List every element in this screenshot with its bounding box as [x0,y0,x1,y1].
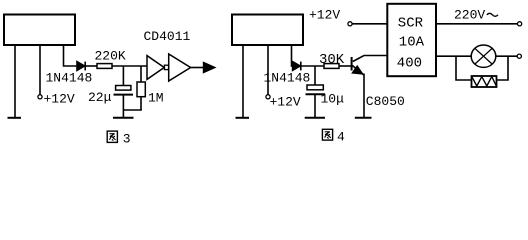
svg-text:400: 400 [397,56,422,72]
svg-text:10μ: 10μ [321,92,345,107]
svg-text:1N4148: 1N4148 [46,71,93,86]
svg-text:220K: 220K [95,49,126,64]
svg-text:10A: 10A [399,34,425,50]
svg-text:+12V: +12V [270,95,301,110]
svg-text:SCR: SCR [398,15,424,31]
svg-text:3: 3 [123,132,131,147]
svg-text:22μ: 22μ [88,90,112,105]
svg-text:+12V: +12V [44,92,75,107]
svg-text:30K: 30K [319,52,345,68]
svg-text:4: 4 [337,130,345,145]
svg-text:+12V: +12V [309,8,340,23]
svg-text:CD4011: CD4011 [144,29,191,44]
svg-text:C8050: C8050 [366,94,405,109]
svg-text:220V: 220V [454,8,485,23]
svg-text:1M: 1M [148,91,164,106]
svg-text:1N4148: 1N4148 [264,71,311,86]
